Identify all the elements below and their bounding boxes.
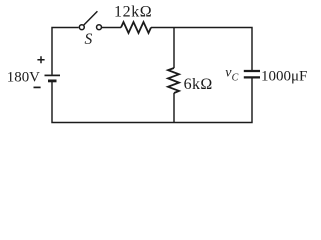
svg-text:1000μF: 1000μF xyxy=(261,68,307,84)
svg-text:12kΩ: 12kΩ xyxy=(114,4,152,21)
svg-text:6kΩ: 6kΩ xyxy=(184,76,213,93)
svg-text:S: S xyxy=(85,31,93,48)
svg-text:180V: 180V xyxy=(7,69,40,85)
svg-text:C: C xyxy=(232,73,239,84)
